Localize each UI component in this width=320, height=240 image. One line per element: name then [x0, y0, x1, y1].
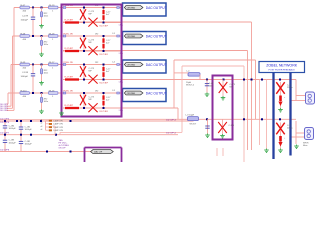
svg-text:CIRCPAD: CIRCPAD [127, 92, 136, 95]
svg-text:R-610: R-610 [21, 90, 28, 92]
svg-text:D-AMP O/P1: D-AMP O/P1 [53, 119, 63, 122]
svg-text:o2: o2 [41, 123, 43, 125]
svg-text:R-17 4R7: R-17 4R7 [65, 48, 74, 50]
svg-text:2R2: 2R2 [95, 33, 98, 35]
svg-text:R-17 4R7: R-17 4R7 [65, 76, 74, 78]
svg-text:4K-18: 4K-18 [49, 33, 56, 35]
svg-text:R-17 4R7: R-17 4R7 [65, 19, 74, 21]
svg-text:C-5: C-5 [112, 90, 115, 92]
svg-text:R-173 N/F: R-173 N/F [100, 54, 109, 56]
svg-text:CIRCPAD: CIRCPAD [127, 7, 136, 10]
svg-text:1000µF: 1000µF [9, 142, 17, 144]
svg-text:PCM-L 1W: PCM-L 1W [64, 33, 73, 35]
svg-text:R-67: R-67 [21, 5, 27, 7]
svg-text:D-AMP O/P2: D-AMP O/P2 [53, 123, 63, 126]
svg-text:DD O/P-4: DD O/P-4 [166, 132, 176, 134]
svg-text:WOUT-2: WOUT-2 [186, 84, 195, 86]
svg-text:2200u: 2200u [287, 128, 293, 130]
svg-text:DD O/P-3: DD O/P-3 [166, 119, 176, 121]
svg-text:4K-17: 4K-17 [49, 62, 56, 64]
svg-text:DAC OUTPUT: DAC OUTPUT [146, 91, 167, 95]
svg-text:1000µF: 1000µF [21, 76, 29, 78]
svg-text:ZOBEL NETWORK: ZOBEL NETWORK [266, 63, 298, 67]
svg-text:DD O/P6: DD O/P6 [0, 122, 10, 124]
svg-text:DD O/P7: DD O/P7 [0, 133, 10, 135]
svg-text:DAC OUTPUT: DAC OUTPUT [146, 34, 167, 38]
svg-text:WOUT: WOUT [190, 123, 197, 125]
svg-text:1000µF: 1000µF [25, 144, 33, 146]
svg-text:C-198: C-198 [22, 72, 29, 74]
svg-text:R-173 N/F: R-173 N/F [100, 83, 109, 85]
svg-text:2R2: 2R2 [95, 62, 98, 64]
svg-text:1000µF: 1000µF [9, 128, 17, 130]
svg-text:ON O/P: ON O/P [59, 148, 67, 150]
svg-text:4K-16: 4K-16 [49, 90, 56, 92]
svg-text:PCM-L 1W: PCM-L 1W [64, 62, 73, 64]
svg-text:o3: o3 [41, 126, 43, 128]
svg-text:C-183: C-183 [9, 140, 16, 142]
svg-text:DAC OUTPUT: DAC OUTPUT [146, 63, 167, 67]
svg-text:C-181: C-181 [25, 141, 32, 143]
svg-text:POST FILTER FEEDBACK: POST FILTER FEEDBACK [269, 69, 296, 72]
svg-text:DAC OUTPUT: DAC OUTPUT [146, 6, 167, 10]
svg-text:CIRCPAD: CIRCPAD [127, 35, 136, 38]
svg-text:C-5: C-5 [112, 62, 115, 64]
svg-text:DD O/P5: DD O/P5 [0, 119, 10, 121]
svg-text:C-184: C-184 [9, 125, 16, 127]
svg-text:R-69: R-69 [21, 62, 27, 64]
svg-text:o4: o4 [41, 129, 43, 131]
svg-text:C-199: C-199 [22, 16, 29, 18]
svg-text:100n: 100n [209, 86, 213, 88]
svg-text:C-176: C-176 [229, 125, 235, 127]
svg-text:2R2: 2R2 [95, 90, 98, 92]
svg-text:C-182: C-182 [25, 127, 32, 129]
svg-text:R-17 4R7: R-17 4R7 [65, 105, 74, 107]
svg-text:1000µF: 1000µF [21, 20, 29, 22]
svg-text:o1: o1 [41, 119, 43, 121]
svg-text:PCM-L 1W: PCM-L 1W [64, 90, 73, 92]
svg-text:L-9 10µH: L-9 10µH [186, 115, 195, 117]
svg-text:4K-19: 4K-19 [49, 5, 56, 7]
svg-text:C-5: C-5 [112, 33, 115, 35]
svg-text:DD O/P4: DD O/P4 [0, 110, 8, 112]
svg-text:R-173 N/F: R-173 N/F [100, 111, 109, 113]
svg-text:R-68: R-68 [21, 33, 27, 35]
svg-text:DAC O/P: DAC O/P [94, 151, 103, 154]
svg-text:1000µF: 1000µF [25, 129, 33, 131]
svg-text:CIRCPAD: CIRCPAD [127, 64, 136, 67]
svg-text:R-173 N/F: R-173 N/F [100, 26, 109, 28]
svg-text:2200u: 2200u [287, 87, 293, 89]
svg-text:DD O/P8: DD O/P8 [0, 149, 10, 151]
